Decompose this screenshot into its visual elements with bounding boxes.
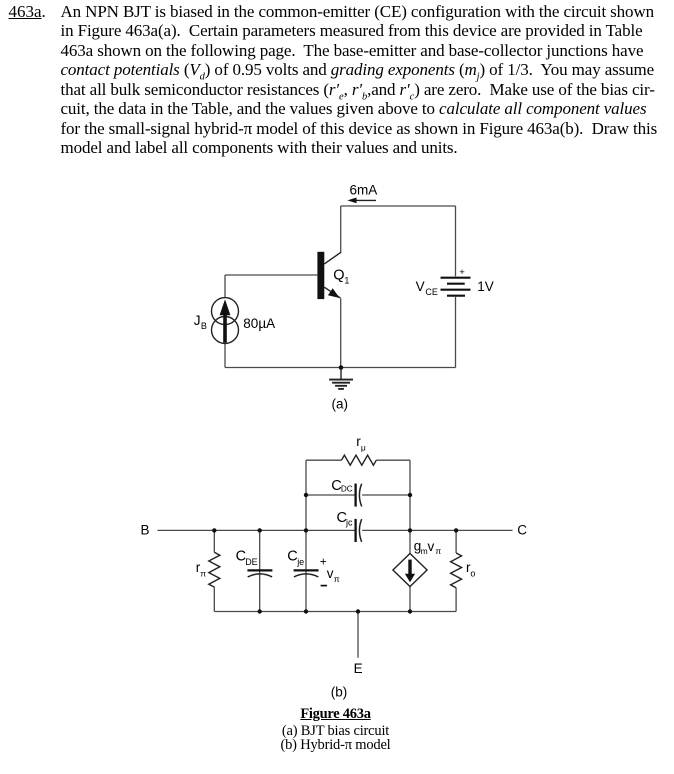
wire: circuit (a) top collector-to-battery — [341, 205, 456, 207]
wire: C_DE branch — [259, 530, 261, 611]
wire: right vertical x410 lower — [409, 586, 411, 611]
node dot B/r_pi — [212, 528, 216, 532]
node dot C_DC right — [408, 493, 412, 497]
svg-text:(a): (a) — [332, 397, 349, 412]
transistor Q1 emitter diagonal — [324, 287, 340, 298]
svg-text:80µA: 80µA — [243, 316, 275, 331]
wire: base wire — [225, 274, 317, 276]
svg-text:B: B — [141, 522, 150, 537]
node dot r_o top — [454, 528, 458, 532]
svg-text:1V: 1V — [477, 279, 494, 294]
svg-text:B: B — [201, 321, 207, 331]
problem number — [9, 2, 46, 22]
wire: battery right vertical upper — [455, 206, 457, 276]
wire: battery right vertical lower — [455, 297, 457, 368]
transistor Q1 base bar — [317, 252, 324, 299]
node dot C_DE bottom — [258, 609, 262, 613]
svg-text:+: + — [459, 267, 465, 278]
svg-text:(b): (b) — [331, 685, 348, 700]
svg-text:je: je — [296, 557, 304, 567]
node dot C_DC left — [304, 493, 308, 497]
capacitor C_DE plates — [247, 569, 272, 571]
current source J_B circles — [212, 298, 239, 344]
svg-text:Q: Q — [333, 268, 344, 284]
wire: r_o branch — [455, 530, 457, 611]
wire: C_DC row left — [306, 494, 355, 496]
svg-text:E: E — [354, 661, 363, 676]
svg-text:C: C — [517, 522, 527, 537]
wire: E stub — [357, 612, 359, 658]
node dot E junction — [356, 609, 360, 613]
node dot C_DE top — [258, 528, 262, 532]
6mA current arrow — [347, 198, 376, 204]
node dot g_m top — [408, 528, 412, 532]
svg-text:π: π — [334, 574, 340, 584]
svg-text:DC: DC — [341, 485, 353, 494]
wire: right vertical x410 upper — [409, 460, 411, 553]
svg-text:o: o — [470, 568, 475, 578]
resistor r_pi zigzag — [209, 552, 220, 587]
resistor r_o zigzag — [451, 553, 462, 588]
svg-text:J: J — [194, 313, 201, 328]
wire: circuit (a) bottom rail — [225, 367, 456, 369]
svg-text:V: V — [416, 279, 425, 294]
svg-text:CE: CE — [425, 287, 438, 297]
transistor Q1 emitter arrowhead — [328, 288, 340, 298]
junction dot (a) emitter/ground — [339, 365, 344, 370]
svg-text:v: v — [428, 539, 435, 554]
wire: left vertical x306 full — [305, 460, 307, 611]
wire: collector vertical — [340, 206, 342, 252]
svg-text:v: v — [327, 566, 334, 581]
node dot C_je top — [304, 528, 308, 532]
figure caption — [0, 707, 671, 722]
wire: top loop upper left — [306, 459, 342, 461]
resistor r_mu zigzag — [342, 455, 377, 465]
capacitor C_je plates — [294, 569, 319, 571]
wire: main B line left of C_jc — [158, 529, 356, 531]
battery V_CE — [441, 278, 471, 296]
ground symbol — [329, 370, 353, 389]
dependent source g_m v_pi diamond — [393, 554, 427, 587]
wire: bottom rail — [214, 611, 456, 613]
capacitor C_DC plates — [354, 484, 356, 507]
transistor Q1 collector diagonal — [324, 252, 341, 264]
svg-text:π: π — [435, 546, 441, 556]
svg-text:DE: DE — [245, 557, 258, 567]
wire: left vertical below current source — [224, 343, 226, 367]
node dot C_je bottom — [304, 609, 308, 613]
dependent source arrow — [408, 560, 411, 577]
wire: main C line right of C_jc — [362, 529, 512, 531]
current source arrow — [220, 299, 231, 342]
svg-text:1: 1 — [344, 276, 349, 286]
wire: r_pi branch — [213, 530, 215, 611]
svg-text:π: π — [200, 568, 206, 578]
wire: emitter vertical — [340, 298, 342, 367]
svg-text:μ: μ — [361, 442, 366, 452]
svg-text:jc: jc — [345, 518, 353, 528]
node dot g_m bottom — [408, 609, 412, 613]
capacitor C_jc plates — [354, 519, 356, 542]
junction dots circuit (b) — [212, 493, 458, 614]
wire: top loop upper right — [376, 459, 410, 461]
svg-text:6mA: 6mA — [350, 182, 378, 197]
problem paragraph — [61, 2, 658, 158]
wire: left vertical above current source — [224, 275, 226, 298]
wire: C_DC row right — [362, 494, 410, 496]
